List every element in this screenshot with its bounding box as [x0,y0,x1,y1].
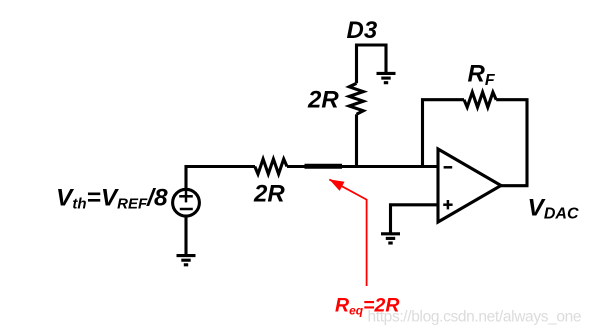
svg-text:VDAC: VDAC [528,195,579,223]
wire feedback left vertical [423,100,465,167]
wire from node to vertical resistor 2R [355,114,358,166]
resistor 2R (horizontal, series input) [255,159,287,174]
wire from vertical resistor top to D3 ground [357,45,387,83]
wire segment (thick, equivalent resistance section) [305,164,343,169]
svg-text:2R: 2R [253,181,285,208]
svg-text:Vth=VREF/8: Vth=VREF/8 [56,185,168,213]
svg-text:2R: 2R [307,87,339,114]
resistor RF (feedback) [464,92,496,107]
svg-text:D3: D3 [347,17,378,44]
wire from non-inverting input to ground [391,205,439,233]
wire from source top to resistor 2R left [186,167,255,191]
resistor 2R (vertical, to D3) [349,83,363,114]
ground (below source) [177,256,196,265]
op-amp U1 [438,149,501,222]
wire from resistor 2R to op-amp inverting input [287,165,438,168]
op-amp non-inverting input symbol [443,200,452,209]
voltage source Vth [173,189,200,216]
red annotation arrow [329,179,366,286]
ground (non-inverting input) [381,234,400,243]
wire op-amp output [501,184,529,187]
svg-text:https://blog.csdn.net/always_o: https://blog.csdn.net/always_one [368,309,582,326]
ground (D3 branch) [377,73,396,82]
wire from source bottom to ground [184,216,187,254]
wire feedback right vertical to output [496,100,527,186]
svg-text:RF: RF [468,61,496,90]
red arrowhead [329,179,344,191]
op-amp inverting input symbol [444,166,453,169]
